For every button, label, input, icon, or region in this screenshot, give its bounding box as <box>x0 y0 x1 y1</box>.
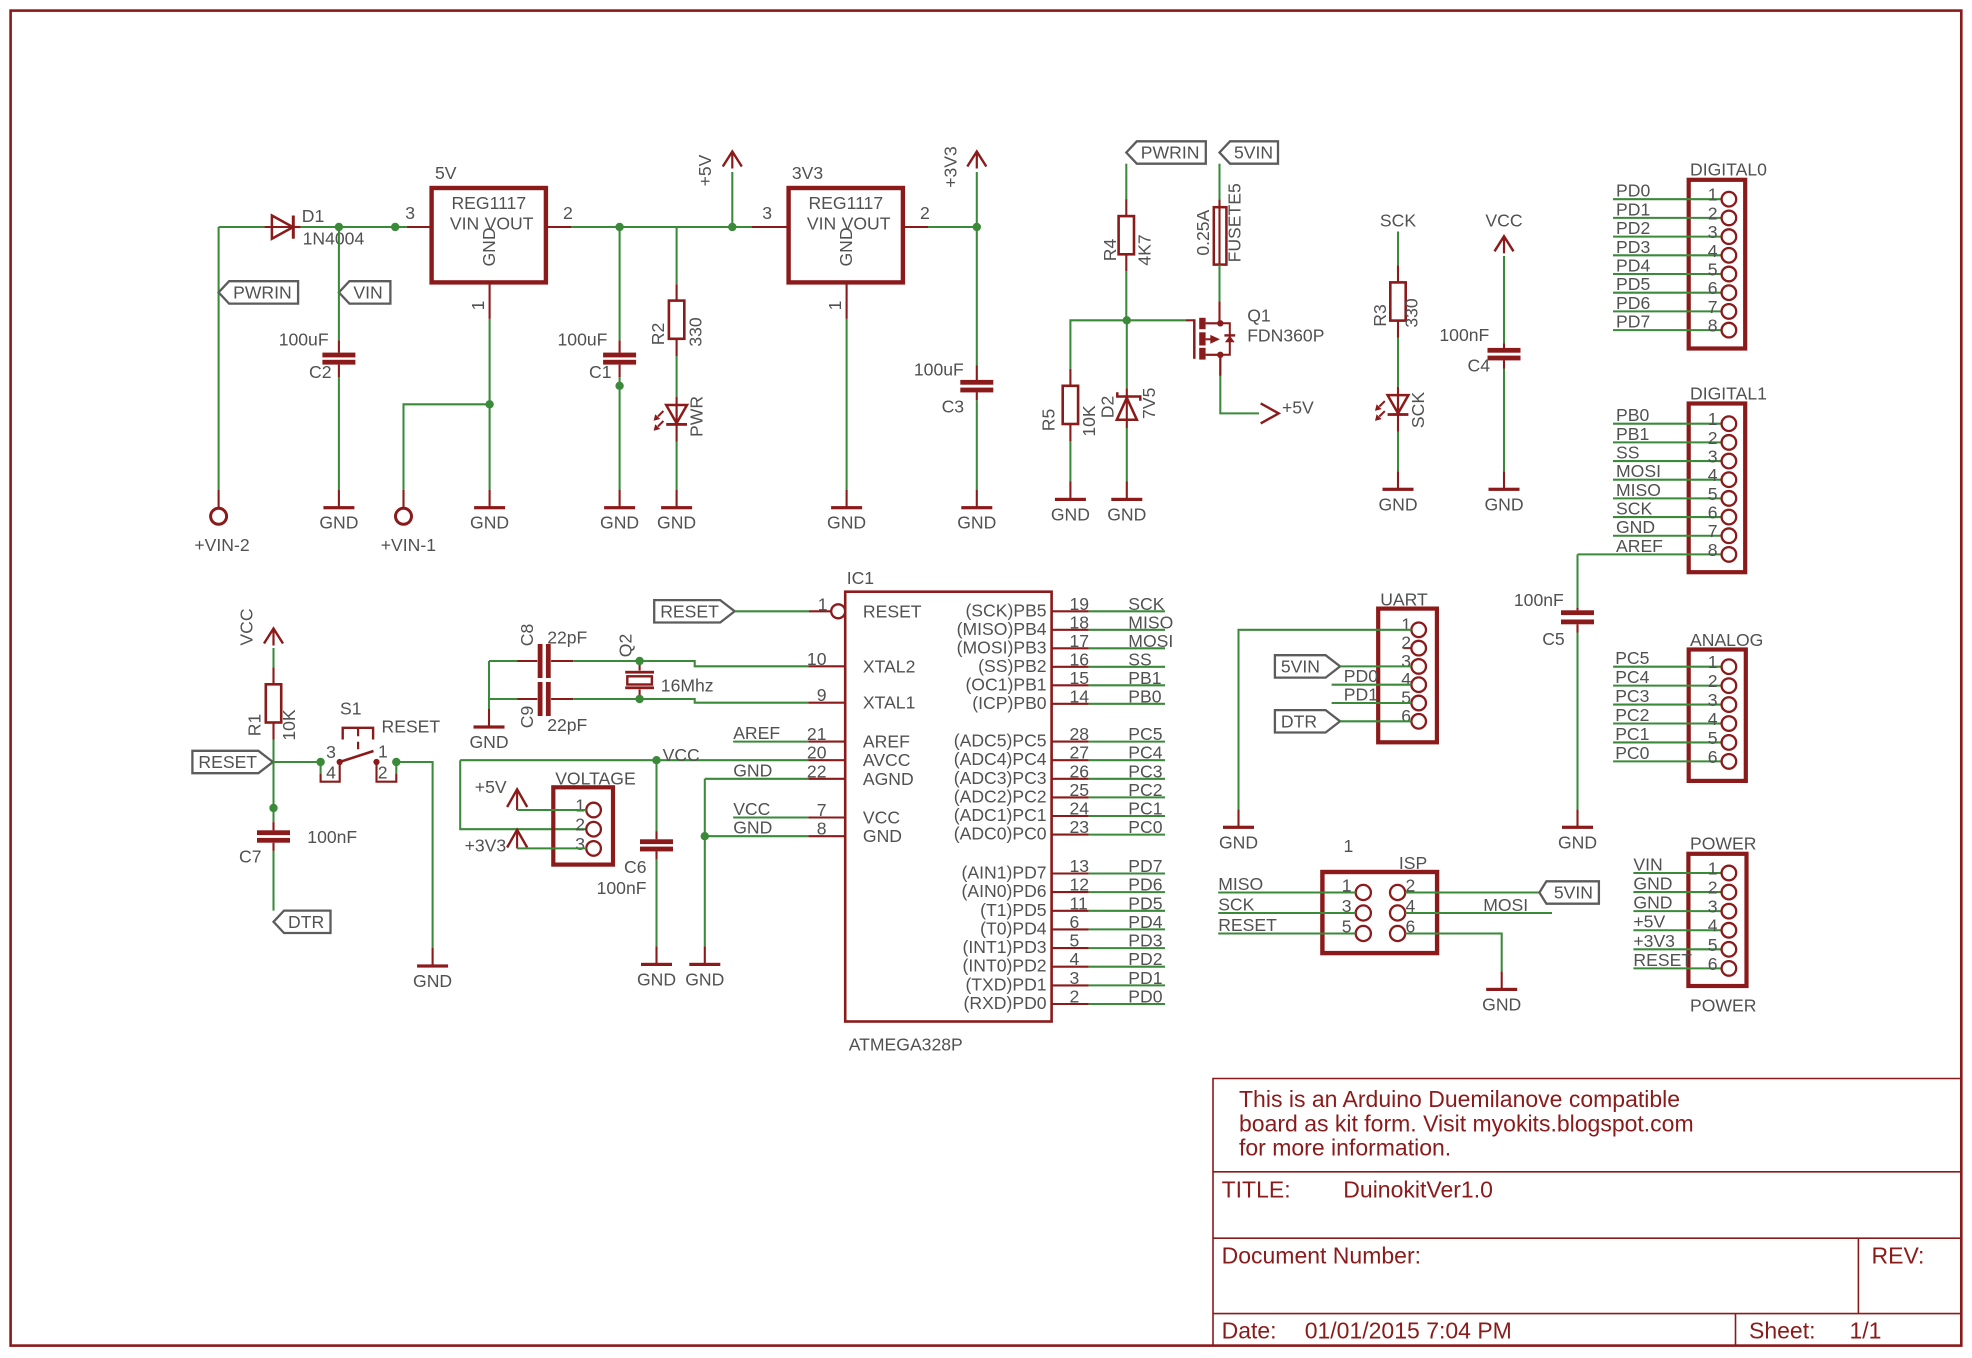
svg-text:GND: GND <box>470 513 509 533</box>
svg-text:DIGITAL1: DIGITAL1 <box>1690 383 1767 403</box>
regulator U1 REG1117 5V <box>432 163 546 282</box>
DIGITAL1 pin 7 wire net GND <box>1613 517 1736 543</box>
connector ANALOG <box>1689 630 1764 781</box>
svg-text:GND: GND <box>1633 893 1672 913</box>
pin 3 stub of REG2 with number <box>752 203 789 227</box>
IC pin 3 PD1 <box>965 968 1165 995</box>
svg-text:SCK: SCK <box>1616 499 1652 519</box>
svg-text:12: 12 <box>1070 875 1090 895</box>
svg-text:AREF: AREF <box>863 732 910 752</box>
svg-text:PD0: PD0 <box>1128 987 1162 1007</box>
junction VCC at C6 <box>652 756 660 764</box>
supply +3V3 arrow at VOLTAGE <box>465 830 528 856</box>
DIGITAL0 pin 6 wire net PD5 <box>1613 274 1736 300</box>
svg-text:(ADC0)PC0: (ADC0)PC0 <box>954 824 1047 844</box>
VOLTAGE pin 1 circle <box>575 796 601 818</box>
IC pin 10 XTAL2 <box>807 649 915 677</box>
ground below ISP <box>1482 971 1521 1014</box>
DIGITAL1 pin 2 wire net PB1 <box>1613 424 1736 450</box>
svg-text:GND: GND <box>1219 832 1258 852</box>
svg-text:3: 3 <box>326 742 336 762</box>
junction at +5V arrow <box>728 223 736 231</box>
date row <box>1222 1318 1882 1344</box>
svg-text:1: 1 <box>825 301 845 311</box>
capacitor C2 <box>279 330 356 383</box>
svg-text:(SS)PB2: (SS)PB2 <box>978 656 1046 676</box>
wire C5 to GND <box>1576 633 1578 810</box>
svg-text:6: 6 <box>1401 706 1411 726</box>
svg-text:3V3: 3V3 <box>792 163 824 183</box>
IC pin 4 PD2 <box>963 949 1165 976</box>
junction on REG1 GND wire <box>485 400 493 408</box>
IC U3 ATMEGA328P body <box>845 568 1051 1055</box>
svg-text:PC1: PC1 <box>1128 799 1162 819</box>
capacitor C6 100nF <box>597 760 673 898</box>
svg-text:5VIN: 5VIN <box>1281 656 1320 676</box>
capacitor C3 <box>914 227 993 416</box>
svg-text:RESET: RESET <box>1633 950 1692 970</box>
svg-text:+5V: +5V <box>1633 912 1665 932</box>
wire R2 branch <box>676 227 678 284</box>
svg-text:5VIN: 5VIN <box>1234 143 1273 163</box>
supply +5V arrow right <box>1261 398 1314 424</box>
wire SCK to ISP pin3 <box>1218 895 1356 915</box>
svg-text:7: 7 <box>1708 297 1718 317</box>
net flag VIN <box>339 281 391 303</box>
junction at +3V3 arrow <box>973 223 981 231</box>
svg-text:1: 1 <box>1708 859 1718 879</box>
svg-text:PC2: PC2 <box>1615 705 1649 725</box>
svg-text:3: 3 <box>1708 897 1718 917</box>
wire Q1 source to +5V arrow <box>1220 355 1259 414</box>
wire C6 to GND <box>655 860 657 947</box>
svg-text:S1: S1 <box>340 699 362 719</box>
svg-text:R1: R1 <box>245 714 265 737</box>
ground below C3 <box>957 490 996 533</box>
svg-text:5: 5 <box>1708 484 1718 504</box>
svg-text:REG1117: REG1117 <box>451 193 526 213</box>
capacitor C7 100nF <box>239 822 357 866</box>
svg-text:+5V: +5V <box>695 154 715 186</box>
svg-text:VCC: VCC <box>663 745 700 765</box>
svg-text:GND: GND <box>1633 874 1672 894</box>
svg-text:17: 17 <box>1070 631 1090 651</box>
wire UART pin1 to GND <box>1239 630 1412 810</box>
svg-text:1: 1 <box>1401 614 1411 634</box>
svg-text:24: 24 <box>1070 799 1090 819</box>
svg-text:RESET: RESET <box>863 601 922 621</box>
resistor R2 330 <box>648 284 706 356</box>
wire 5VIN flag to fuse <box>1218 164 1220 200</box>
svg-text:C6: C6 <box>624 857 647 877</box>
svg-text:Document Number:: Document Number: <box>1222 1242 1421 1268</box>
DIGITAL0 pin 1 wire net PD0 <box>1613 181 1736 207</box>
svg-text:GND: GND <box>1484 494 1523 514</box>
svg-text:4: 4 <box>1708 916 1718 936</box>
wire C2 to GND <box>338 377 340 490</box>
svg-text:XTAL2: XTAL2 <box>863 656 915 676</box>
ground below C6 <box>637 946 676 989</box>
wire R3 to LED SCK <box>1397 338 1399 387</box>
DIGITAL1 pin 4 wire net MOSI <box>1613 461 1736 487</box>
svg-text:(SCK)PB5: (SCK)PB5 <box>965 600 1046 620</box>
svg-text:R5: R5 <box>1039 409 1059 432</box>
net flag DTR at UART <box>1275 710 1340 732</box>
svg-text:GND: GND <box>1378 494 1417 514</box>
svg-text:PD7: PD7 <box>1616 312 1650 332</box>
crystal Q2 16Mhz <box>616 634 714 699</box>
wire 3V3 rail <box>928 226 977 228</box>
svg-text:+3V3: +3V3 <box>1633 931 1675 951</box>
svg-text:AVCC: AVCC <box>863 750 911 770</box>
svg-text:VIN: VIN <box>1633 855 1662 875</box>
svg-text:GND: GND <box>1616 517 1655 537</box>
svg-text:+3V3: +3V3 <box>941 146 961 188</box>
svg-text:GND: GND <box>657 513 696 533</box>
svg-text:SS: SS <box>1616 443 1639 463</box>
svg-text:ANALOG: ANALOG <box>1690 630 1763 650</box>
svg-text:1: 1 <box>818 594 828 614</box>
svg-text:1/1: 1/1 <box>1850 1318 1882 1344</box>
svg-text:R2: R2 <box>648 323 668 346</box>
IC pin 17 MOSI <box>957 631 1174 658</box>
ISP pin 4 circle <box>1390 896 1416 921</box>
svg-text:PD6: PD6 <box>1128 875 1162 895</box>
svg-text:RESET: RESET <box>1218 915 1277 935</box>
svg-text:GND: GND <box>1482 994 1521 1014</box>
pin 1 stub of REG2 with number <box>825 282 847 319</box>
resistor R1 10K <box>245 667 300 740</box>
svg-text:GND: GND <box>469 732 508 752</box>
DIGITAL1 pin 8 wire net AREF <box>1578 536 1737 562</box>
DIGITAL0 pin 3 wire net PD2 <box>1613 218 1736 244</box>
junction below C1 <box>615 382 623 390</box>
svg-text:GND: GND <box>1107 504 1146 524</box>
wire C9 to crystal bottom <box>573 698 639 700</box>
svg-text:PD4: PD4 <box>1128 912 1162 932</box>
svg-text:DTR: DTR <box>288 912 324 932</box>
UART pin 3 circle <box>1401 651 1426 674</box>
svg-text:GND: GND <box>685 969 724 989</box>
IC pin 23 PC0 <box>954 817 1165 844</box>
wire +3V3 to VOLTAGE pin3 <box>517 847 586 849</box>
svg-text:100nF: 100nF <box>597 878 647 898</box>
wire C4 to GND <box>1503 369 1505 472</box>
svg-text:10K: 10K <box>279 709 299 741</box>
svg-text:2: 2 <box>563 203 573 223</box>
wire PWRIN vertical to +VIN-2 <box>218 227 220 490</box>
switch S1 RESET <box>321 699 441 783</box>
svg-text:4: 4 <box>1401 669 1411 689</box>
ground below C2 <box>319 490 358 533</box>
wire +3V3 arrow down <box>976 172 978 227</box>
wire gate node to D2 <box>1126 320 1128 388</box>
ANALOG pin 2 wire net PC4 <box>1613 667 1736 693</box>
svg-text:VIN: VIN <box>353 282 382 302</box>
junction node at REG1 input <box>391 223 399 231</box>
svg-text:C2: C2 <box>309 362 332 382</box>
svg-text:PWRIN: PWRIN <box>1141 143 1200 163</box>
svg-text:PC4: PC4 <box>1615 667 1649 687</box>
DIGITAL1 pin 5 wire net MISO <box>1613 480 1736 506</box>
svg-text:C7: C7 <box>239 847 262 867</box>
net flag RESET at IC <box>654 600 735 622</box>
wire gate node to R5 <box>1070 320 1126 369</box>
VOLTAGE pin 3 circle <box>575 834 601 856</box>
svg-text:(OC1)PB1: (OC1)PB1 <box>965 674 1046 694</box>
IC pin 6 PD4 <box>980 912 1165 939</box>
UART pin 2 circle <box>1401 633 1426 656</box>
svg-text:1: 1 <box>1708 185 1718 205</box>
connector DIGITAL1 <box>1689 383 1767 572</box>
svg-text:6: 6 <box>1070 912 1080 932</box>
svg-text:1: 1 <box>1708 409 1718 429</box>
svg-text:(ADC5)PC5: (ADC5)PC5 <box>954 731 1047 751</box>
svg-text:This is an Arduino Duemilanove: This is an Arduino Duemilanove compatibl… <box>1239 1086 1680 1112</box>
svg-text:DTR: DTR <box>1281 711 1317 731</box>
svg-text:6: 6 <box>1708 278 1718 298</box>
svg-text:22: 22 <box>807 761 827 781</box>
svg-text:C8: C8 <box>517 624 537 647</box>
svg-text:PD2: PD2 <box>1128 949 1162 969</box>
net label VCC wire to pin 7 <box>733 799 808 819</box>
svg-text:PD4: PD4 <box>1616 256 1650 276</box>
svg-text:D2: D2 <box>1098 396 1118 419</box>
svg-text:PD0: PD0 <box>1616 181 1650 201</box>
wire VCC to C4 <box>1503 256 1505 343</box>
ground below C5 <box>1558 809 1597 852</box>
svg-text:SCK: SCK <box>1218 895 1254 915</box>
svg-text:8: 8 <box>1708 316 1718 336</box>
svg-text:100nF: 100nF <box>307 827 357 847</box>
svg-text:MISO: MISO <box>1128 612 1173 632</box>
svg-text:330: 330 <box>686 317 706 347</box>
POWER pin 4 wire net +5V <box>1633 912 1736 938</box>
svg-text:1N4004: 1N4004 <box>303 229 365 249</box>
svg-text:PD1: PD1 <box>1616 199 1650 219</box>
svg-text:POWER: POWER <box>1690 996 1756 1016</box>
DIGITAL1 pin 3 wire net SS <box>1613 443 1736 469</box>
svg-text:VIN: VIN <box>450 213 479 233</box>
POWER pin 5 wire net +3V3 <box>1633 931 1736 957</box>
IC pin 19 SCK <box>965 594 1165 621</box>
svg-text:PD1: PD1 <box>1344 685 1378 705</box>
ground below LED PWR <box>657 490 696 533</box>
svg-text:11: 11 <box>1070 893 1088 913</box>
svg-text:2: 2 <box>1708 878 1718 898</box>
svg-text:GND: GND <box>600 513 639 533</box>
DIGITAL1 pin 6 wire net SCK <box>1613 499 1736 525</box>
wire VCC arrow to R1 <box>272 648 274 667</box>
svg-text:AREF: AREF <box>733 723 780 743</box>
svg-text:20: 20 <box>807 743 827 763</box>
svg-text:27: 27 <box>1070 743 1090 763</box>
svg-text:VCC: VCC <box>733 799 770 819</box>
wire R4 to gate node <box>1125 271 1127 320</box>
ANALOG pin 3 wire net PC3 <box>1613 686 1736 712</box>
svg-text:100nF: 100nF <box>1439 325 1489 345</box>
svg-text:PD1: PD1 <box>1128 968 1162 988</box>
IC pin 15 PB1 <box>965 668 1165 695</box>
ground below REG1 <box>470 490 509 533</box>
LED PWR <box>654 396 707 442</box>
wire +VIN-1 to REG1 GND net <box>404 404 490 489</box>
wire 5VIN flag to UART pin3 <box>1340 665 1411 667</box>
svg-text:3: 3 <box>1070 968 1080 988</box>
wire PD1 to UART pin5 <box>1332 685 1412 705</box>
junction on reset-C7 wire <box>269 804 277 812</box>
wire C1 to GND <box>619 377 621 490</box>
svg-text:Date:: Date: <box>1222 1318 1277 1344</box>
capacitor C5 100nF <box>1514 590 1594 649</box>
svg-text:PD2: PD2 <box>1616 218 1650 238</box>
svg-text:C9: C9 <box>517 706 537 729</box>
LED SCK <box>1375 387 1428 432</box>
svg-text:6: 6 <box>1708 503 1718 523</box>
svg-text:5: 5 <box>1708 935 1718 955</box>
ground below REG2 <box>827 490 866 533</box>
wire C8 to crystal top <box>573 660 639 662</box>
svg-text:Q1: Q1 <box>1247 306 1270 326</box>
svg-text:22pF: 22pF <box>547 627 587 647</box>
junction at pin 8 branch <box>701 832 709 840</box>
svg-text:4: 4 <box>1070 949 1080 969</box>
svg-text:GND: GND <box>1558 832 1597 852</box>
POWER pin 1 wire net VIN <box>1633 855 1736 881</box>
wire D2 to GND <box>1126 428 1128 481</box>
DIGITAL0 pin 8 wire net PD7 <box>1613 312 1736 338</box>
svg-text:0.25A: 0.25A <box>1193 209 1213 255</box>
svg-text:16Mhz: 16Mhz <box>661 675 714 695</box>
svg-text:8: 8 <box>1708 540 1718 560</box>
svg-text:21: 21 <box>807 724 827 744</box>
IC pin 20 AVCC <box>807 743 911 771</box>
diode D1 <box>264 206 364 249</box>
wire D1 cathode to REG1 VIN <box>301 226 407 228</box>
svg-text:2: 2 <box>920 203 930 223</box>
ground below C8 C9 <box>469 709 508 752</box>
svg-text:(T0)PD4: (T0)PD4 <box>980 918 1047 938</box>
svg-text:Q2: Q2 <box>616 634 636 657</box>
net flag 5VIN at ISP <box>1539 881 1599 903</box>
IC pin 27 PC4 <box>954 743 1165 770</box>
svg-text:PC4: PC4 <box>1128 743 1162 763</box>
POWER pin 2 wire net GND <box>1633 874 1736 900</box>
svg-text:PB1: PB1 <box>1128 668 1161 688</box>
svg-text:(TXD)PD1: (TXD)PD1 <box>965 974 1046 994</box>
supply +5V arrow at VOLTAGE <box>475 777 527 810</box>
svg-text:MOSI: MOSI <box>1483 895 1528 915</box>
wire REG2 GND to ground <box>846 319 848 490</box>
svg-text:(MOSI)PB3: (MOSI)PB3 <box>957 637 1047 657</box>
title block info text <box>1239 1086 1694 1161</box>
IC pin 14 PB0 <box>972 686 1165 713</box>
net flag PWRIN <box>219 281 299 303</box>
svg-text:PD5: PD5 <box>1128 893 1162 913</box>
IC pin 22 AGND <box>807 761 914 789</box>
svg-text:(RXD)PD0: (RXD)PD0 <box>964 993 1047 1013</box>
wire ISP pin2 to 5VIN flag <box>1405 891 1540 893</box>
wire ISP pin4 MOSI <box>1405 895 1552 915</box>
svg-text:7: 7 <box>817 800 827 820</box>
DIGITAL0 pin 4 wire net PD3 <box>1613 237 1736 263</box>
wire reset node to switch <box>274 761 321 763</box>
svg-text:16: 16 <box>1070 649 1090 669</box>
wire VCC rail to AVCC <box>460 759 808 761</box>
svg-text:330: 330 <box>1402 298 1422 328</box>
svg-text:PB0: PB0 <box>1616 405 1649 425</box>
svg-text:REG1117: REG1117 <box>808 193 883 213</box>
svg-text:(ADC2)PC2: (ADC2)PC2 <box>954 786 1047 806</box>
svg-text:PWRIN: PWRIN <box>233 282 292 302</box>
svg-text:5: 5 <box>1708 728 1718 748</box>
svg-text:5VIN: 5VIN <box>1554 883 1593 903</box>
wire R5 to GND <box>1069 441 1071 481</box>
transistor Q1 FDN360P <box>1194 301 1324 359</box>
svg-text:FUSETE5: FUSETE5 <box>1225 183 1245 262</box>
ground below C4 <box>1484 471 1523 514</box>
svg-text:4: 4 <box>1708 465 1718 485</box>
IC pin 16 SS <box>978 649 1165 676</box>
svg-text:9: 9 <box>817 685 827 705</box>
wire REG1 GND pin down <box>489 319 491 490</box>
POWER pin 6 wire net RESET <box>1633 950 1736 976</box>
IC pin 25 PC2 <box>954 780 1165 807</box>
svg-text:R3: R3 <box>1370 304 1390 327</box>
svg-text:MISO: MISO <box>1218 874 1263 894</box>
junction at C1 <box>615 223 623 231</box>
svg-text:PD3: PD3 <box>1616 237 1650 257</box>
svg-text:(ADC4)PC4: (ADC4)PC4 <box>954 749 1047 769</box>
svg-text:5V: 5V <box>435 163 457 183</box>
ISP pin 1 circle <box>1342 876 1371 901</box>
svg-text:PC5: PC5 <box>1128 724 1162 744</box>
wire crystal to XTAL2 <box>640 661 809 666</box>
svg-text:PD7: PD7 <box>1128 856 1162 876</box>
svg-text:100uF: 100uF <box>279 330 329 350</box>
supply +3V3 arrow top <box>941 146 987 188</box>
svg-text:19: 19 <box>1070 594 1090 614</box>
IC pin 18 MISO <box>957 612 1174 639</box>
svg-text:3: 3 <box>762 203 772 223</box>
wire reset node down to C7 <box>272 762 274 822</box>
svg-text:(INT1)PD3: (INT1)PD3 <box>963 937 1047 957</box>
svg-text:5: 5 <box>1070 931 1080 951</box>
svg-text:DIGITAL0: DIGITAL0 <box>1690 160 1767 180</box>
svg-text:C3: C3 <box>942 396 965 416</box>
DIGITAL0 pin 5 wire net PD4 <box>1613 256 1736 282</box>
svg-text:13: 13 <box>1070 856 1090 876</box>
fuse F1 FUSETE5 0.25A <box>1193 183 1245 265</box>
wire AGND GND vertical <box>704 779 706 947</box>
ground below UART pin1 wire <box>1219 809 1258 852</box>
svg-text:GND: GND <box>637 969 676 989</box>
wire PD0 to UART pin4 <box>1332 666 1412 686</box>
svg-text:MISO: MISO <box>1616 480 1661 500</box>
svg-text:(ADC1)PC1: (ADC1)PC1 <box>954 805 1047 825</box>
wire AREF down to C5 <box>1576 554 1578 608</box>
svg-text:8: 8 <box>817 819 827 839</box>
svg-text:MOSI: MOSI <box>1128 631 1173 651</box>
connector ISP <box>1322 836 1437 953</box>
wire switch to GND <box>396 762 432 948</box>
svg-text:5: 5 <box>1708 260 1718 280</box>
svg-text:6: 6 <box>1708 747 1718 767</box>
svg-text:VCC: VCC <box>1485 211 1522 231</box>
supply VCC arrow left <box>264 629 283 644</box>
svg-text:25: 25 <box>1070 780 1090 800</box>
net flag 5VIN at UART <box>1275 655 1340 677</box>
